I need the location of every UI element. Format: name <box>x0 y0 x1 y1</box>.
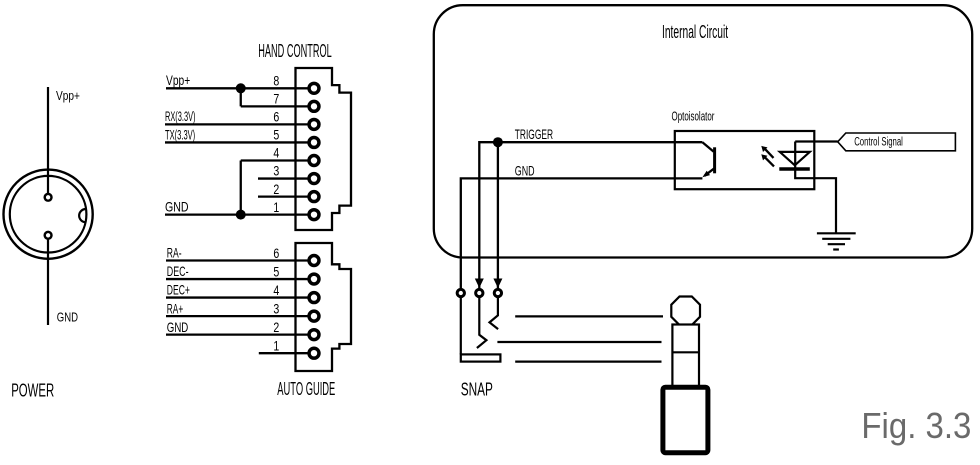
svg-text:TRIGGER: TRIGGER <box>515 126 553 142</box>
svg-text:GND: GND <box>165 199 189 215</box>
svg-text:2: 2 <box>273 181 279 197</box>
svg-text:RX(3.3V): RX(3.3V) <box>165 108 196 124</box>
svg-text:GND: GND <box>515 162 535 178</box>
svg-text:RA+: RA+ <box>167 300 183 316</box>
svg-text:5: 5 <box>273 127 279 143</box>
svg-text:8: 8 <box>273 73 279 89</box>
svg-text:6: 6 <box>273 245 279 261</box>
svg-text:TX(3.3V): TX(3.3V) <box>165 126 195 142</box>
svg-text:Optoisolator: Optoisolator <box>672 109 715 124</box>
svg-text:3: 3 <box>273 163 279 179</box>
svg-text:HAND CONTROL: HAND CONTROL <box>258 41 331 61</box>
svg-text:7: 7 <box>273 91 279 107</box>
svg-text:Internal Circuit: Internal Circuit <box>662 21 728 42</box>
svg-text:1: 1 <box>273 338 279 354</box>
svg-text:GND: GND <box>167 319 189 335</box>
svg-text:4: 4 <box>273 282 279 298</box>
svg-text:DEC+: DEC+ <box>167 282 190 298</box>
svg-text:Fig. 3.3: Fig. 3.3 <box>861 405 971 446</box>
svg-text:DEC-: DEC- <box>167 263 189 279</box>
svg-text:5: 5 <box>273 263 279 279</box>
svg-text:Control Signal: Control Signal <box>854 137 903 149</box>
svg-text:POWER: POWER <box>11 380 54 400</box>
svg-text:Vpp+: Vpp+ <box>56 88 80 103</box>
svg-text:Vpp+: Vpp+ <box>166 72 190 88</box>
svg-text:3: 3 <box>273 300 279 316</box>
svg-text:RA-: RA- <box>167 244 182 260</box>
svg-text:SNAP: SNAP <box>461 380 493 400</box>
svg-text:6: 6 <box>273 109 279 125</box>
svg-text:GND: GND <box>57 310 78 325</box>
svg-text:AUTO GUIDE: AUTO GUIDE <box>277 379 335 399</box>
svg-text:1: 1 <box>273 199 279 215</box>
svg-text:4: 4 <box>273 145 279 161</box>
svg-text:2: 2 <box>273 319 279 335</box>
